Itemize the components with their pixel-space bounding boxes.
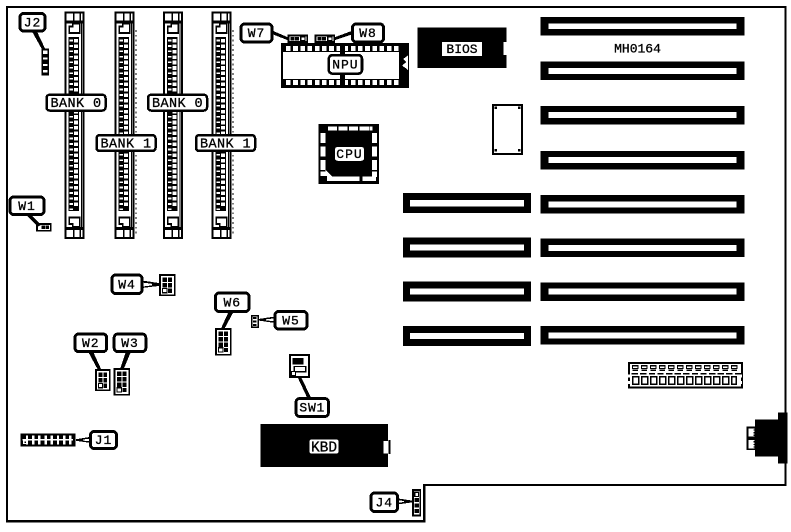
svg-text:BANK 1: BANK 1	[200, 137, 251, 152]
svg-text:J2: J2	[24, 15, 42, 30]
leader SW1	[298, 377, 313, 400]
label W1	[10, 197, 44, 215]
svg-text:W2: W2	[82, 336, 100, 351]
leader W3	[120, 352, 131, 370]
label SW1	[296, 399, 329, 417]
BIOS chip	[418, 28, 509, 69]
label W7	[241, 24, 272, 42]
svg-text:SW1: SW1	[299, 401, 325, 416]
expansion slot long 8	[541, 326, 745, 345]
SIMM socket 4	[213, 13, 231, 239]
SIMM socket 3	[164, 13, 182, 239]
label W3	[114, 334, 146, 352]
connector J2	[42, 49, 49, 75]
power connector terminal block	[628, 363, 742, 388]
jumper W8	[316, 35, 335, 42]
board part number MH0164	[614, 42, 661, 57]
DIP switch SW1	[290, 355, 309, 377]
expansion slot short 4	[403, 326, 531, 346]
SIMM socket 1	[66, 13, 84, 239]
leader J2	[32, 31, 46, 50]
label W6	[216, 293, 250, 312]
label W8	[353, 24, 384, 42]
svg-text:BIOS: BIOS	[446, 42, 477, 57]
expansion slot long 4	[541, 151, 745, 170]
expansion slot long 2	[541, 62, 745, 81]
svg-text:MH0164: MH0164	[614, 42, 661, 57]
label KBD	[310, 439, 339, 456]
label J1	[91, 432, 117, 449]
label CPU	[335, 147, 364, 162]
NPU chip (DIP with pins)	[282, 44, 408, 87]
expansion slot long 5	[541, 195, 745, 214]
label BANK 0 (second)	[148, 95, 207, 112]
expansion slot long 6	[541, 239, 745, 258]
svg-text:W1: W1	[18, 199, 36, 214]
leader W1	[25, 214, 41, 227]
crystal oscillator Y1	[493, 105, 522, 154]
leader W2	[88, 352, 102, 371]
CPU chip (PLCC socket)	[319, 124, 380, 184]
svg-text:BANK 0: BANK 0	[152, 97, 203, 112]
keyboard DIN connector	[748, 413, 788, 464]
expansion slot short 3	[403, 281, 531, 301]
svg-text:NPU: NPU	[332, 58, 358, 73]
label BANK 1 (first)	[97, 135, 156, 152]
svg-text:CPU: CPU	[336, 147, 362, 162]
leader W7	[272, 31, 289, 41]
leader W6	[221, 311, 235, 330]
jumper W7	[289, 35, 308, 42]
jumper W2	[96, 370, 110, 390]
label BANK 0 (first)	[47, 95, 106, 112]
label W5	[275, 312, 307, 330]
expansion slot long 1	[541, 17, 745, 36]
label NPU	[329, 55, 362, 73]
label J2	[20, 14, 45, 32]
svg-text:W7: W7	[248, 26, 266, 41]
label J4	[371, 493, 398, 512]
leader J1	[76, 437, 91, 443]
jumper W5	[252, 316, 259, 328]
svg-text:BANK 0: BANK 0	[50, 97, 101, 112]
svg-text:W3: W3	[121, 336, 139, 351]
leader W8	[334, 31, 353, 41]
label BANK 1 (second)	[196, 135, 255, 152]
connector J1	[21, 434, 75, 446]
connector J4	[413, 490, 420, 516]
svg-text:W8: W8	[359, 26, 377, 41]
dashed line right of socket 4	[232, 30, 234, 236]
leader W4	[142, 281, 160, 289]
expansion slot short 1	[403, 193, 531, 213]
svg-text:J1: J1	[95, 433, 113, 448]
jumper W4	[160, 275, 175, 295]
label W2	[75, 334, 107, 352]
label BIOS	[442, 42, 482, 57]
jumper W3	[115, 369, 130, 395]
leader W5	[258, 317, 275, 324]
svg-text:W6: W6	[223, 295, 241, 310]
SIMM socket 2	[116, 13, 134, 239]
jumper W6	[216, 329, 231, 355]
dashed line right of socket 2	[135, 30, 137, 236]
svg-text:BANK 1: BANK 1	[100, 137, 151, 152]
svg-text:W4: W4	[118, 277, 136, 292]
jumper W1	[37, 224, 51, 231]
expansion slot long 7	[541, 282, 745, 301]
svg-text:J4: J4	[375, 495, 393, 510]
keyboard controller KBD	[261, 424, 391, 467]
svg-text:KBD: KBD	[311, 441, 337, 457]
expansion slot long 3	[541, 106, 745, 125]
svg-text:W5: W5	[282, 313, 300, 328]
leader J4	[397, 498, 413, 504]
expansion slot short 2	[403, 237, 531, 257]
label W4	[112, 275, 142, 294]
